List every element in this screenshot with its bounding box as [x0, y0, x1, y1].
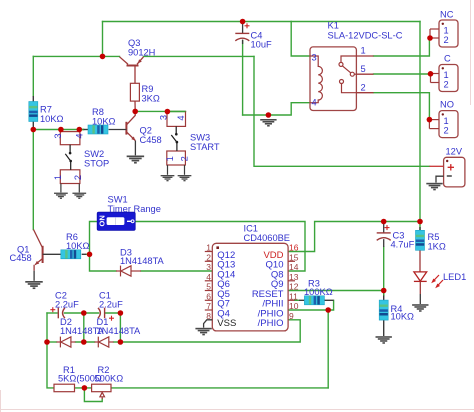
- wire relay pin2 to NO: [374, 93, 430, 120]
- svg-text:1N4148TA: 1N4148TA: [120, 256, 165, 266]
- wire IC pin10: [288, 309, 328, 311]
- node D1 right: [118, 339, 124, 345]
- switch SW3: [167, 112, 186, 175]
- svg-text:K1: K1: [328, 21, 339, 31]
- svg-text:SW1: SW1: [108, 195, 128, 205]
- svg-text:10KΩ: 10KΩ: [66, 241, 90, 251]
- svg-text:R7: R7: [40, 105, 52, 115]
- svg-text:SW3: SW3: [190, 133, 210, 143]
- capacitor C3: [377, 222, 391, 248]
- svg-text:13: 13: [289, 272, 299, 282]
- ground under Q2: [127, 156, 144, 164]
- svg-text:3KΩ: 3KΩ: [142, 94, 160, 104]
- resistor R7: [29, 96, 38, 130]
- svg-text:Timer Range: Timer Range: [108, 204, 161, 214]
- node NO pin: [427, 117, 433, 123]
- IC U1 CD4060BE: [204, 243, 295, 331]
- wire relay pin5 to C: [374, 73, 431, 75]
- IC pin names: [217, 250, 283, 329]
- svg-text:9: 9: [289, 311, 294, 321]
- node C3 top: [381, 219, 387, 225]
- wire drop to Q3 emitter rail: [102, 22, 104, 57]
- capacitor C4: [235, 22, 249, 45]
- svg-text:1KΩ: 1KΩ: [428, 242, 446, 252]
- svg-text:6: 6: [206, 291, 211, 301]
- svg-text:R8: R8: [92, 107, 104, 117]
- battery 12V: [430, 157, 465, 187]
- node D2/D1: [81, 339, 87, 345]
- svg-text:1: 1: [444, 70, 449, 80]
- node R9/Q2 collector: [132, 109, 138, 115]
- ground SW3 pin1: [161, 175, 175, 181]
- svg-text:C: C: [444, 54, 451, 64]
- wire pin10 net down to R2: [327, 310, 329, 388]
- node C pin: [428, 71, 434, 77]
- svg-text:5: 5: [361, 64, 366, 74]
- wire base row R7/SW2/R8: [33, 129, 83, 131]
- wire 12V down right: [254, 56, 430, 166]
- ground battery minus: [426, 183, 442, 191]
- svg-text:1: 1: [361, 46, 366, 56]
- svg-text:11: 11: [289, 291, 298, 301]
- wire R2 wiper loop: [84, 388, 102, 402]
- svg-text:1: 1: [206, 243, 211, 253]
- wire R6 node down to D3: [90, 254, 117, 271]
- svg-text:10KΩ: 10KΩ: [92, 117, 116, 127]
- svg-text:1N4148TA: 1N4148TA: [97, 326, 142, 336]
- wire R5 top: [419, 222, 421, 231]
- node C4 ground: [266, 112, 272, 118]
- contacts: [339, 56, 356, 93]
- wire C4 drop: [242, 41, 244, 116]
- svg-text:12: 12: [289, 282, 299, 292]
- wire SW1 right to IC pin14: [135, 222, 305, 272]
- ground SW3 pin2: [178, 175, 192, 181]
- LED1: [414, 272, 443, 304]
- node C3/R4/pin12: [381, 288, 387, 294]
- svg-text:SLA-12VDC-SL-C: SLA-12VDC-SL-C: [328, 31, 403, 41]
- wire R7 top: [32, 56, 34, 96]
- svg-text:START: START: [190, 142, 220, 152]
- transistor Q2: [109, 111, 136, 155]
- svg-text:2: 2: [206, 252, 211, 262]
- switch SW1 DIP: [97, 212, 135, 230]
- svg-text:100KΩ: 100KΩ: [304, 287, 333, 297]
- node C4 plus: [240, 19, 246, 25]
- wire top 12V rail: [103, 21, 421, 23]
- ground SW2 pin2: [72, 193, 86, 199]
- ground C4/relay node: [260, 119, 276, 127]
- node SW2 pin4: [77, 127, 83, 133]
- svg-text:7: 7: [206, 301, 211, 311]
- svg-text:IC1: IC1: [244, 224, 258, 234]
- wire Q2 collector to SW3: [135, 110, 185, 112]
- svg-text:Q2: Q2: [140, 126, 152, 136]
- svg-text:3: 3: [312, 53, 317, 63]
- node C2/C1: [81, 310, 87, 316]
- svg-text:10KΩ: 10KΩ: [40, 114, 64, 124]
- svg-text:VSS: VSS: [217, 318, 236, 329]
- svg-text:4.7uF: 4.7uF: [391, 240, 415, 250]
- node SW3 pin3: [165, 109, 171, 115]
- wire relay pin4 to ground node: [243, 103, 310, 115]
- svg-text:R5: R5: [428, 232, 440, 242]
- node R5 top: [417, 219, 423, 225]
- svg-text:2: 2: [444, 80, 449, 90]
- ground under R4: [376, 336, 392, 344]
- node Q3 emitter / top rail: [100, 54, 106, 60]
- wire SW1 left: [90, 222, 98, 255]
- resistor R9: [130, 66, 139, 112]
- wire R3 left: [295, 299, 300, 301]
- svg-text:NO: NO: [440, 100, 454, 110]
- svg-text:SW2: SW2: [84, 149, 104, 159]
- wire C3 bottom to reset node: [383, 247, 385, 295]
- svg-text:4: 4: [312, 98, 317, 108]
- connector C: [431, 65, 459, 92]
- wire Q1 collector rail: [32, 130, 34, 230]
- VSS pin8 ground lead: [204, 320, 213, 328]
- diode D1: [95, 337, 114, 348]
- svg-text:2: 2: [361, 83, 366, 93]
- wire D3 to IC pin3: [141, 270, 212, 272]
- wire VDD pin16: [288, 222, 420, 252]
- svg-text:3: 3: [206, 262, 211, 272]
- resistor R8: [84, 125, 109, 134]
- svg-text:4: 4: [176, 115, 186, 120]
- potentiometer R2: [92, 384, 111, 399]
- node R3/R2/pin10: [325, 307, 331, 313]
- svg-text:/PHIO: /PHIO: [258, 318, 284, 329]
- capacitor C2: [50, 307, 65, 318]
- svg-text:10uF: 10uF: [251, 40, 273, 50]
- svg-text:3: 3: [159, 115, 169, 120]
- svg-text:1: 1: [444, 116, 449, 126]
- transistor Q3: [120, 57, 144, 66]
- connector NO: [429, 111, 458, 138]
- node SW2 pin3: [58, 127, 64, 133]
- IC left pin stubs: [205, 252, 213, 311]
- svg-text:STOP: STOP: [84, 159, 109, 169]
- resistor R3: [299, 296, 334, 305]
- svg-text:2.2uF: 2.2uF: [55, 300, 79, 310]
- coil: [310, 56, 322, 103]
- transistor Q1: [34, 230, 61, 281]
- node NC pin: [427, 35, 433, 41]
- relay K1: [310, 47, 374, 111]
- wire relay pin1 to NC: [374, 38, 430, 56]
- node R6/SW1/D3: [87, 252, 93, 258]
- wire Q3 left rail: [33, 55, 119, 57]
- svg-text:12V: 12V: [446, 147, 463, 157]
- svg-text:4: 4: [206, 272, 211, 282]
- wire R2 right to pin10 net: [111, 387, 328, 389]
- ground VSS: [195, 328, 211, 336]
- pin leads: [356, 56, 373, 93]
- wire R8 left: [79, 129, 83, 131]
- svg-text:2.2uF: 2.2uF: [99, 300, 123, 310]
- svg-text:16: 16: [289, 243, 299, 253]
- wire diode row segments: [47, 341, 57, 343]
- IC right pin stubs: [288, 261, 295, 300]
- resistor R1: [54, 384, 75, 392]
- diode D2: [57, 337, 76, 348]
- svg-text:3: 3: [53, 133, 63, 138]
- svg-text:500KΩ: 500KΩ: [95, 374, 124, 384]
- svg-text:10KΩ: 10KΩ: [391, 312, 415, 322]
- svg-text:R9: R9: [142, 84, 154, 94]
- wire R6 right: [86, 253, 90, 255]
- node D2 left: [44, 339, 50, 345]
- IC pin numbers: [206, 243, 298, 321]
- ground SW2 pin1: [54, 193, 68, 199]
- node R7 bottom: [31, 127, 37, 133]
- ground under LED1: [412, 304, 428, 312]
- svg-text:2: 2: [179, 156, 189, 161]
- resistor R4: [379, 296, 388, 337]
- wire IC pin9 loop to diode row: [120, 320, 300, 342]
- wire cap row: [47, 312, 57, 314]
- resistor R6: [61, 250, 86, 259]
- svg-text:1: 1: [165, 156, 175, 161]
- svg-text:C458: C458: [10, 253, 32, 263]
- wire cap row verticals: [46, 313, 48, 342]
- node C1 right: [118, 310, 124, 316]
- svg-text:9012H: 9012H: [128, 48, 155, 58]
- svg-text:4: 4: [75, 133, 85, 138]
- wire right rail down to VDD row: [419, 22, 421, 222]
- svg-text:8: 8: [206, 311, 211, 321]
- pin 1 marker: [216, 246, 219, 249]
- svg-text:C458: C458: [140, 135, 162, 145]
- svg-text:5: 5: [206, 282, 211, 292]
- wire relay coil pin3: [291, 22, 310, 57]
- svg-text:2: 2: [444, 126, 449, 136]
- svg-text:1: 1: [444, 26, 449, 36]
- resistor R5: [416, 227, 425, 272]
- svg-text:15: 15: [289, 252, 299, 262]
- svg-text:2: 2: [73, 175, 83, 180]
- wire IC pin12 to reset node: [288, 290, 384, 292]
- svg-text:LED1: LED1: [443, 272, 466, 282]
- ground under Q1: [25, 281, 42, 289]
- svg-text:14: 14: [289, 262, 299, 272]
- svg-text:CD4060BE: CD4060BE: [244, 233, 291, 243]
- svg-text:1: 1: [53, 175, 63, 180]
- wire R3 right to pin10 net: [328, 300, 333, 310]
- wire R1 to R2: [75, 387, 92, 389]
- svg-text:2: 2: [444, 35, 449, 45]
- svg-text:10: 10: [289, 301, 299, 311]
- wire left rail to R1: [47, 342, 54, 388]
- wire Q3 right rail: [144, 55, 255, 57]
- svg-text:NC: NC: [440, 10, 454, 20]
- diode D3: [116, 266, 141, 277]
- switch SW2: [60, 130, 80, 193]
- capacitor C1: [98, 308, 114, 321]
- node R1/R2 wiper: [82, 385, 88, 391]
- connector NC: [430, 20, 458, 47]
- svg-text:Q3: Q3: [128, 38, 140, 48]
- wire R4 top: [383, 291, 385, 296]
- svg-text:ON: ON: [98, 215, 107, 226]
